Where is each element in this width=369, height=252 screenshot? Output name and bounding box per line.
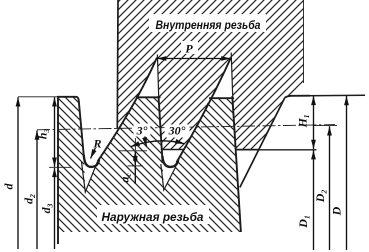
internal crest flat D1 over groove 1 (161, 149, 185, 151)
leader R (91, 148, 96, 159)
dimension D2 (329, 126, 331, 250)
D2 level tick (314, 125, 338, 127)
steep flank S2 and section cut edge (232, 96, 241, 232)
a_c reference line up (134, 138, 136, 150)
internal thread right hatch boundary (303, 0, 305, 83)
flank F2 (177, 58, 232, 163)
svg-text:P: P (185, 42, 193, 56)
thin theoretical V below root 0 (82, 162, 98, 192)
external thread hatched region (58, 97, 241, 233)
crest 3 / D level line (285, 96, 310, 98)
label halos (149, 14, 266, 32)
dimension a_c (134, 151, 136, 165)
external thread profile: left edge, crest, steep flank (57, 97, 84, 244)
flank F1 (98, 58, 158, 162)
internal thread left edge (116, 0, 119, 129)
a_c lower tick (d3 level) (128, 165, 144, 167)
extension line: d crest level (18, 96, 58, 98)
dimension P (157, 58, 231, 60)
svg-text:3°: 3° (136, 124, 148, 138)
svg-text:Наружная резьба: Наружная резьба (102, 210, 204, 224)
internal crest flat D1 over groove 2 (235, 149, 258, 151)
thin steep flank extensions above crests (157, 53, 232, 97)
dimension D1 (313, 150, 315, 250)
svg-text:D: D (330, 206, 344, 216)
root arc R (84, 155, 99, 167)
steep flank S1 (159, 96, 163, 163)
dimension d2 (36, 130, 38, 249)
crest flat tooth 2 (209, 97, 234, 99)
root arc 1 (162, 156, 178, 167)
svg-text:Внутренняя резьба: Внутренняя резьба (156, 18, 261, 32)
dimension h3 (54, 97, 56, 167)
thin theoretical V below root 1 (161, 164, 176, 190)
tick: d3 root level (49, 166, 71, 168)
crest flat tooth 1 (136, 96, 161, 98)
dimension D (346, 96, 348, 250)
dimension d (17, 97, 19, 249)
internal thread hatched region (118, 0, 304, 150)
flank F3 (240, 98, 285, 188)
dimension d3 (54, 168, 56, 249)
D1 level line right portion (237, 149, 317, 151)
angle dimension arc (131, 141, 185, 147)
svg-text:R: R (92, 137, 101, 151)
svg-text:30°: 30° (168, 124, 186, 138)
dimension H1 (313, 96, 315, 149)
leader for 3 degrees (145, 138, 147, 147)
a_c upper tick (D1 level) (119, 150, 147, 152)
pitch line (dash-dot) (37, 125, 335, 130)
svg-text:d: d (2, 183, 16, 190)
